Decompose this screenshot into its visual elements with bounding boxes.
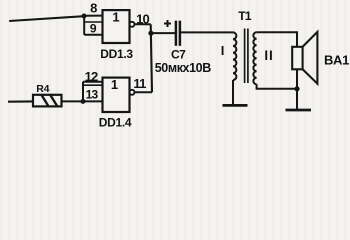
- svg-text:8: 8: [90, 1, 97, 16]
- wire C7 to transformer primary: [180, 31, 234, 33]
- wire pin 10 output: [134, 23, 150, 25]
- wire primary to ground: [232, 80, 234, 105]
- svg-text:I: I: [221, 43, 225, 58]
- wire vertical connector to pin 9: [83, 16, 85, 35]
- wire pin 12 stub: [83, 81, 103, 83]
- ground bar (primary): [223, 104, 248, 107]
- pin label 9 box top line: [84, 21, 102, 23]
- wire pin 8 stub: [84, 15, 103, 17]
- node junction dot speaker/secondary: [294, 86, 299, 91]
- svg-text:C7: C7: [171, 47, 186, 61]
- svg-text:BA1: BA1: [324, 53, 349, 68]
- wire input to R4: [8, 100, 33, 102]
- wire R4 to DD1.4 pin 13: [62, 100, 103, 102]
- resistor R4 diagonal marks: [42, 95, 49, 106]
- node junction dot pins 12-13: [81, 99, 86, 104]
- polarity plus sign: [164, 23, 171, 25]
- svg-text:1: 1: [111, 77, 118, 92]
- svg-text:DD1.3: DD1.3: [100, 47, 133, 61]
- wire input to DD1.3 (pins 8/9 net): [9, 16, 84, 21]
- wire pin 11 output: [134, 91, 152, 93]
- ground bar (speaker): [286, 109, 312, 112]
- transformer T1 core lines: [244, 29, 246, 84]
- speaker BA1 coil box: [292, 47, 302, 70]
- svg-text:T1: T1: [238, 9, 252, 23]
- wire vertical connector to pin 12: [82, 82, 84, 102]
- svg-text:R4: R4: [36, 83, 49, 95]
- svg-text:13: 13: [86, 87, 99, 101]
- svg-text:DD1.4: DD1.4: [99, 115, 132, 129]
- svg-text:12: 12: [85, 69, 98, 84]
- logic gate DD1.3 body: [103, 10, 130, 43]
- svg-text:9: 9: [90, 21, 97, 35]
- capacitor C7 left plate: [175, 21, 178, 46]
- transformer T1 secondary winding II: [253, 32, 256, 84]
- wire to capacitor C7: [151, 32, 175, 34]
- wire pin 9 stub: [84, 34, 102, 36]
- wire secondary top to speaker: [257, 32, 297, 47]
- gate DD1.3 inversion bubble pin 10: [130, 22, 135, 27]
- resistor R4 body: [33, 95, 62, 107]
- svg-text:1: 1: [112, 10, 119, 25]
- node junction dot outputs to C7: [148, 31, 153, 36]
- svg-text:11: 11: [133, 76, 146, 91]
- logic gate DD1.4 body: [103, 78, 130, 112]
- gate DD1.4 inversion bubble pin 11: [130, 90, 135, 95]
- node junction dot pins 8-9: [82, 14, 87, 19]
- speaker BA1 cone: [303, 32, 318, 84]
- wire secondary bottom: [257, 84, 297, 89]
- transformer T1 primary winding I: [233, 32, 236, 80]
- pin label 13 box top line: [83, 84, 103, 86]
- wire output bus vertical pin10 to pin11: [151, 24, 152, 92]
- svg-text:50мкх10В: 50мкх10В: [155, 61, 211, 75]
- wire speaker to ground: [296, 69, 298, 110]
- capacitor C7 right plate: [179, 21, 182, 46]
- svg-text:II: II: [264, 48, 273, 63]
